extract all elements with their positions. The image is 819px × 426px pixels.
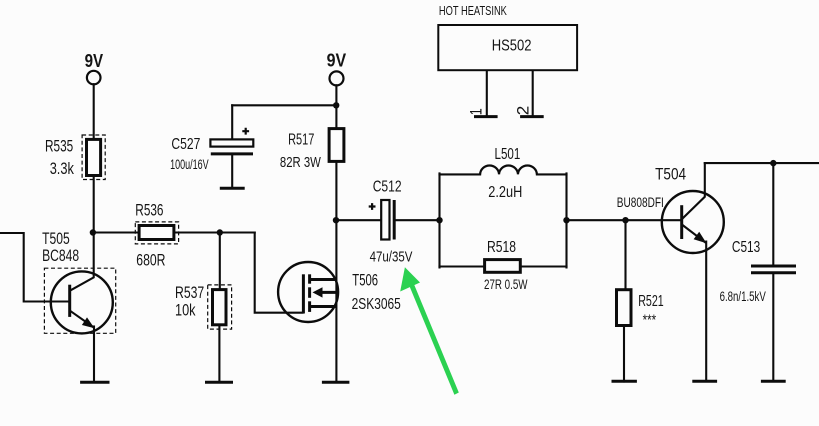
- svg-text:C513: C513: [732, 239, 760, 256]
- svg-text:2SK3065: 2SK3065: [352, 296, 401, 313]
- svg-text:HS502: HS502: [492, 37, 532, 54]
- svg-text:82R 3W: 82R 3W: [280, 155, 321, 171]
- svg-text:9V: 9V: [327, 50, 347, 70]
- svg-text:T506: T506: [352, 271, 378, 290]
- svg-text:HOT HEATSINK: HOT HEATSINK: [439, 3, 507, 18]
- svg-text:R518: R518: [487, 239, 516, 256]
- svg-text:R517: R517: [288, 131, 314, 148]
- svg-text:R521: R521: [638, 293, 664, 310]
- svg-text:1: 1: [467, 108, 486, 115]
- svg-text:2.2uH: 2.2uH: [488, 184, 522, 201]
- svg-text:27R 0.5W: 27R 0.5W: [484, 277, 528, 292]
- svg-text:680R: 680R: [136, 251, 165, 270]
- svg-text:L501: L501: [495, 146, 521, 163]
- svg-text:3.3k: 3.3k: [50, 159, 75, 178]
- svg-text:R536: R536: [135, 201, 163, 220]
- svg-text:10k: 10k: [175, 301, 196, 320]
- svg-text:T504: T504: [655, 165, 686, 184]
- svg-text:2: 2: [513, 106, 532, 116]
- svg-text:100u/16V: 100u/16V: [170, 157, 209, 172]
- svg-text:***: ***: [643, 312, 657, 329]
- svg-text:C512: C512: [373, 178, 402, 195]
- svg-text:6.8n/1.5kV: 6.8n/1.5kV: [720, 289, 766, 304]
- svg-text:BC848: BC848: [42, 246, 79, 265]
- svg-text:C527: C527: [171, 136, 200, 153]
- svg-text:R537: R537: [175, 283, 204, 302]
- svg-text:R535: R535: [45, 136, 73, 155]
- svg-text:47u/35V: 47u/35V: [370, 249, 413, 265]
- svg-text:9V: 9V: [85, 51, 104, 71]
- svg-text:BU808DFI: BU808DFI: [617, 195, 664, 210]
